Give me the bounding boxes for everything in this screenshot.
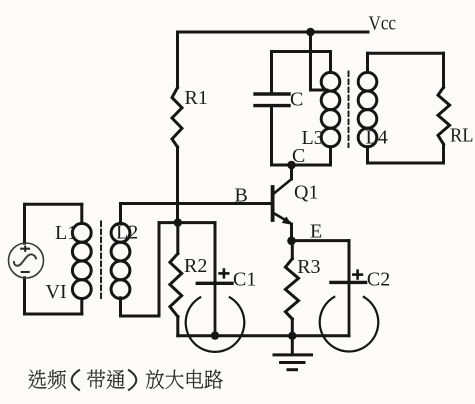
inductor L2 [111,204,130,299]
caption 选频（带通）放大电路 [28,370,223,390]
svg-text:RL: RL [450,125,474,147]
svg-text:B: B [235,185,248,207]
wire bottom rail [178,334,349,337]
svg-text:Vcc: Vcc [369,13,397,35]
svg-text:C: C [292,145,305,167]
svg-text:R2: R2 [184,255,207,277]
wire emitter vertical [290,224,293,241]
wire Vcc tap vertical [309,32,312,90]
svg-text:L2: L2 [116,222,138,244]
capacitor C1 [197,282,232,285]
resistor R1 [172,88,182,148]
wire L2 return branch [158,223,161,316]
svg-text:VI: VI [46,281,67,303]
resistor R3 [291,241,294,259]
wire output loop bottom edge [368,162,444,165]
wire tank bottom edge [272,164,331,167]
svg-text:C1: C1 [233,269,256,291]
junction node C (collector) [287,161,296,170]
junction node C1-ground [211,331,219,339]
plus sign C1 [218,268,229,278]
plus sign C2 [352,269,363,279]
svg-text:R1: R1 [185,87,208,109]
capacitor C2 [331,281,366,284]
svg-text:R3: R3 [297,256,320,278]
wire output loop top edge [368,52,444,55]
wire R1 bottom lead to node X (crosses base wire) [176,147,179,223]
inductor L4 [358,53,377,163]
source VI sine squiggle [14,254,36,265]
wire tank top edge [272,50,331,53]
transistor Q1 [274,180,292,223]
capacitor C [255,94,289,106]
wire top Vcc rail [178,31,369,34]
junction node E (emitter) [287,237,296,246]
junction node ground [288,332,296,340]
svg-text:E: E [310,221,322,243]
junction node Vcc tap [306,28,315,37]
wire C bottom lead [270,107,273,165]
wire input loop [25,203,82,206]
ground [274,336,312,370]
inductor L1 [72,204,91,314]
wire base [121,202,272,205]
source minus sign [21,271,30,273]
svg-text:C2: C2 [367,269,390,291]
resistor RL [438,87,450,144]
wire node X to C1 [159,221,215,224]
wire RL top lead [442,53,445,87]
svg-text:Q1: Q1 [294,182,318,204]
wire RL bottom lead [442,144,445,163]
transistor Q1 emitter arrow [282,216,292,224]
source plus sign [20,246,30,272]
wire R1 vertical top lead [176,32,179,88]
resistor R2 [176,223,179,254]
wire C top lead [270,52,273,93]
transformer core L3/L4 dashed line [348,72,350,148]
wire collector vertical [290,165,293,179]
transformer core L1/L2 dashed line [100,222,102,300]
junction node X (R1/L2/R2/C1) [174,218,182,226]
source VI circle [9,243,44,278]
wire Vcc tap horizontal to L3 [311,89,328,92]
svg-text:L1: L1 [55,222,77,244]
inductor L3 [321,52,340,166]
svg-text:L4: L4 [366,127,388,149]
svg-text:C: C [290,89,303,111]
wire emitter node E to C2 [292,239,350,242]
